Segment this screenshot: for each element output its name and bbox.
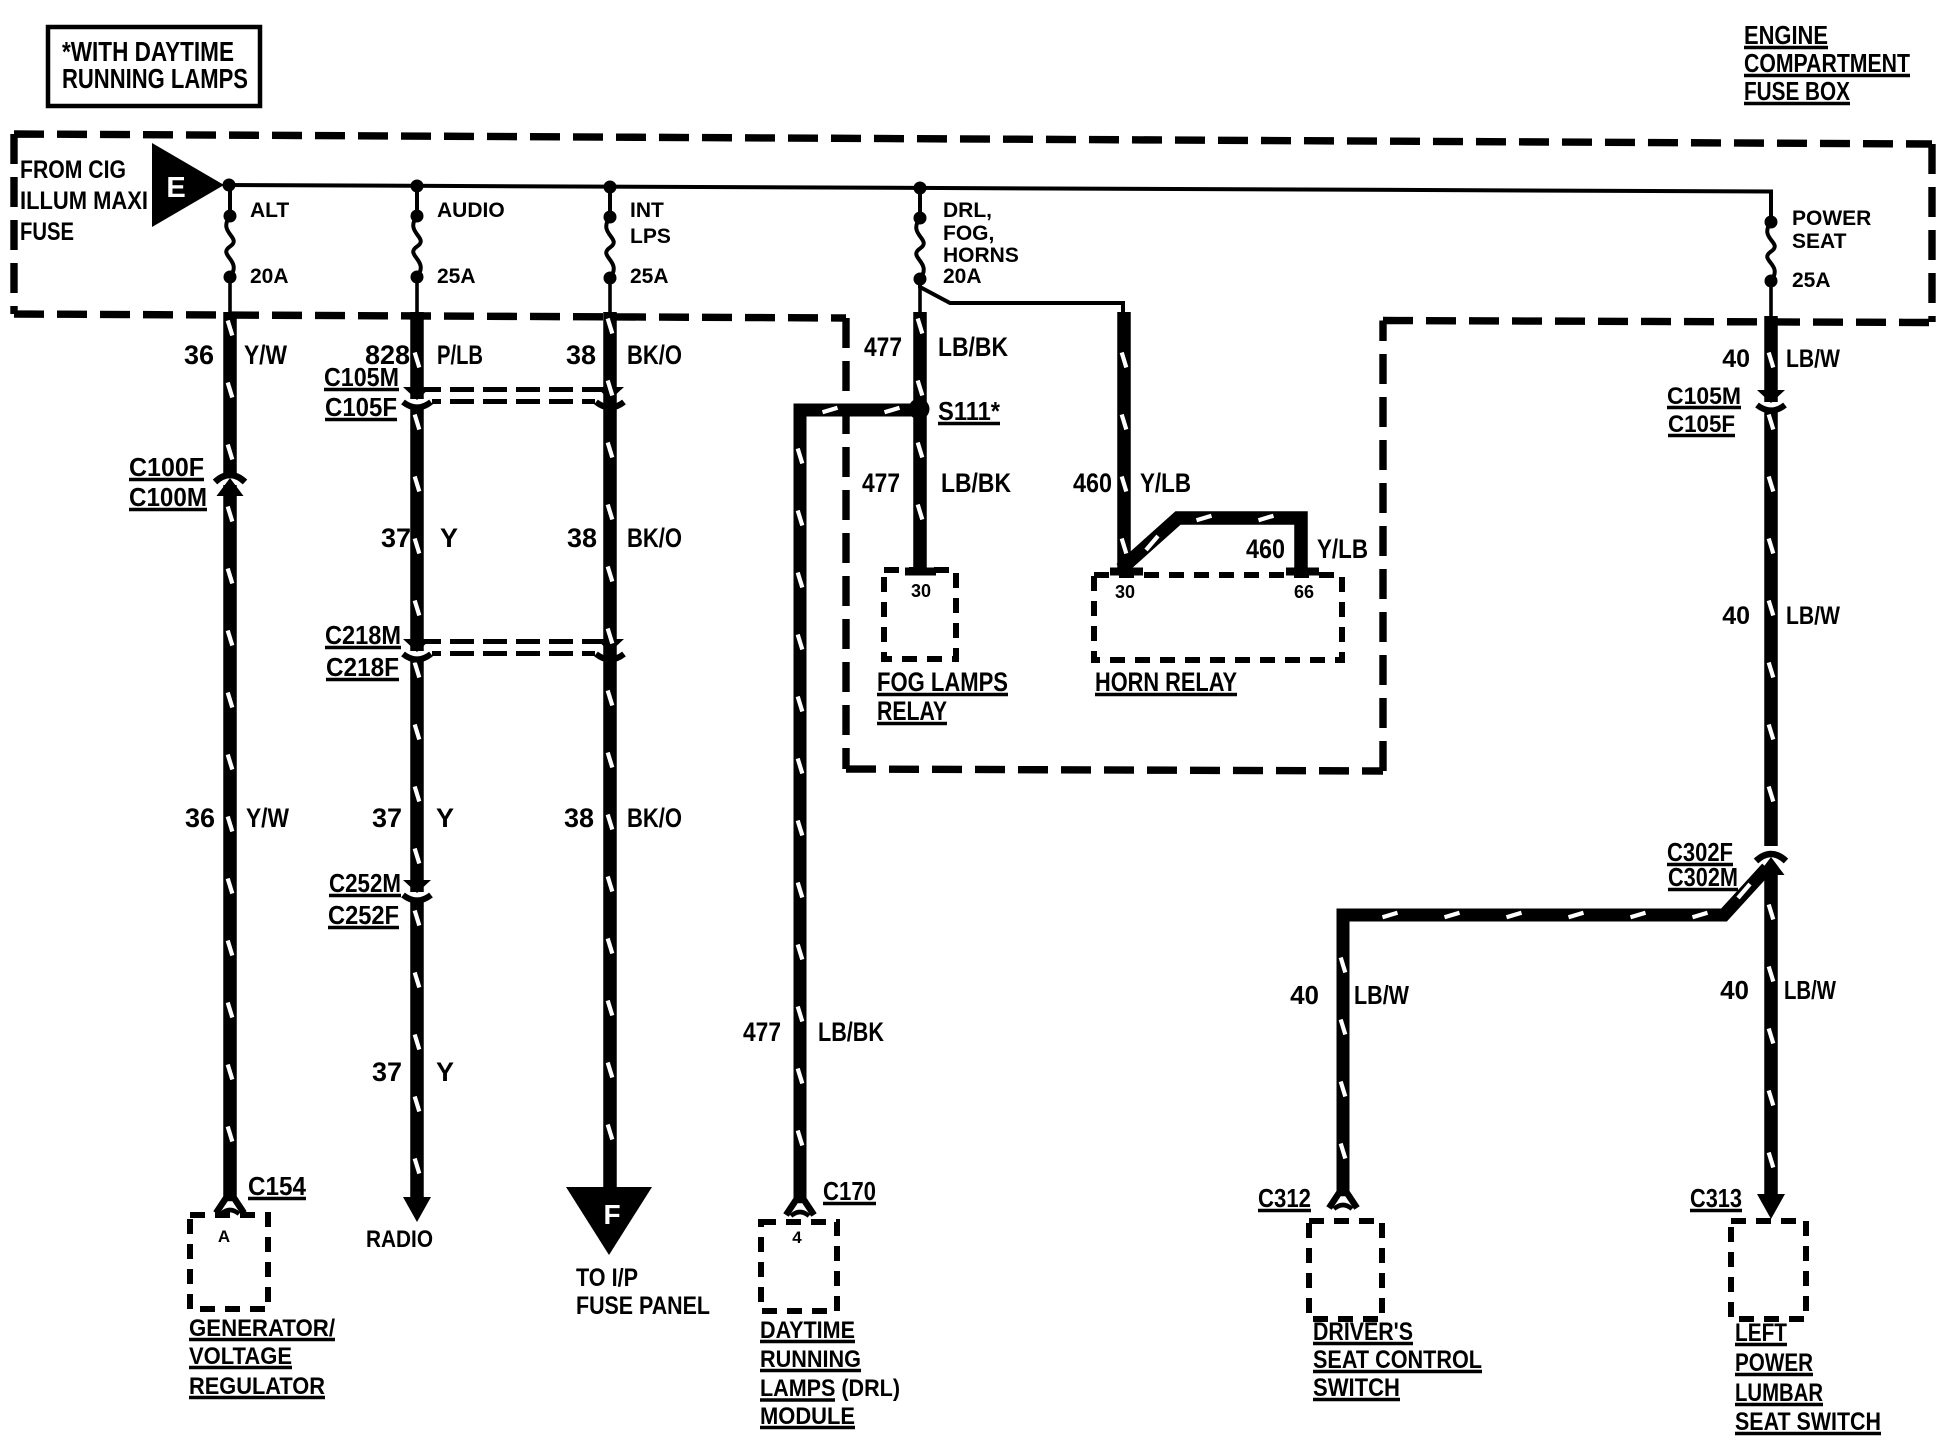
svg-text:RELAY: RELAY: [877, 696, 947, 726]
wire 40 LB/W (power seat fuse to C302): [1764, 316, 1778, 846]
svg-text:C100F: C100F: [129, 452, 204, 482]
wire 477 LB/BK (DRL fuse to fog lamps relay): [913, 312, 927, 569]
svg-text:C252M: C252M: [329, 868, 401, 898]
svg-text:Y/W: Y/W: [244, 340, 287, 370]
svg-text:LB/BK: LB/BK: [941, 468, 1011, 498]
connector C312 (wire end): [1329, 1193, 1357, 1208]
svg-text:LB/W: LB/W: [1354, 980, 1409, 1010]
svg-text:SEAT: SEAT: [1792, 230, 1847, 253]
svg-text:460: 460: [1073, 468, 1112, 498]
connector C105M/C105F (left, on audio wire): [402, 399, 432, 408]
wire 38 BK/O (INT LPS fuse to I/P fuse panel): [603, 312, 617, 1188]
svg-text:C105M: C105M: [324, 362, 399, 392]
svg-text:C302M: C302M: [1668, 862, 1738, 892]
svg-text:RUNNING LAMPS: RUNNING LAMPS: [62, 63, 248, 94]
terminal bar at horn relay pin 30: [1110, 568, 1143, 576]
svg-text:36: 36: [185, 803, 215, 833]
arrow F to I/P fuse panel: [566, 1187, 652, 1255]
connector C218M/C218F (on int lps wire): [595, 651, 625, 660]
svg-text:38: 38: [567, 523, 597, 553]
node: bus junction at AUDIO fuse: [411, 180, 424, 193]
svg-text:Y/W: Y/W: [246, 803, 289, 833]
svg-text:COMPARTMENT: COMPARTMENT: [1744, 48, 1910, 78]
svg-text:HORN RELAY: HORN RELAY: [1095, 667, 1237, 697]
svg-text:S111*: S111*: [938, 396, 1001, 426]
bus wire from arrow E to power seat fuse: [224, 185, 1771, 222]
svg-text:4: 4: [792, 1228, 802, 1247]
wire 36 Y/W (ALT fuse to C154): [223, 312, 237, 1198]
connector C105M/C105F (left, on int lps wire): [595, 399, 625, 408]
wire 40 LB/W (C302 to C313): [1764, 872, 1778, 1198]
svg-text:POWER: POWER: [1792, 207, 1871, 230]
svg-text:E: E: [166, 172, 185, 204]
svg-text:TO I/P: TO I/P: [576, 1264, 638, 1292]
horn relay (dashed box, pins 30 and 66): [1094, 575, 1342, 660]
fog lamps relay (dashed box, pin 30): [884, 570, 956, 659]
svg-text:LB/BK: LB/BK: [818, 1017, 884, 1047]
svg-text:C218F: C218F: [326, 652, 399, 682]
wire 477 LB/BK branch (S111 to DRL module): [800, 410, 914, 1198]
fuse INT LPS 25A: [608, 187, 612, 218]
fuse AUDIO 25A: [415, 186, 419, 217]
svg-text:Y/LB: Y/LB: [1317, 534, 1368, 564]
fuse POWER SEAT 25A: [1765, 216, 1778, 229]
svg-text:Y: Y: [436, 803, 454, 833]
svg-text:40: 40: [1722, 602, 1750, 630]
svg-text:Y: Y: [440, 523, 458, 553]
svg-text:AUDIO: AUDIO: [437, 199, 505, 222]
svg-text:37: 37: [372, 803, 402, 833]
svg-text:HORNS: HORNS: [943, 244, 1019, 267]
node: bus junction at ALT fuse: [223, 179, 236, 192]
svg-text:ENGINE: ENGINE: [1744, 20, 1828, 50]
svg-text:FROM CIG: FROM CIG: [20, 156, 126, 184]
connector C154 (wire end): [216, 1198, 244, 1213]
svg-text:ILLUM MAXI: ILLUM MAXI: [20, 187, 148, 215]
svg-text:FUSE: FUSE: [20, 218, 74, 246]
svg-text:INT: INT: [630, 199, 664, 222]
node: bus junction at DRL fuse: [914, 182, 927, 195]
svg-text:C170: C170: [823, 1176, 876, 1206]
connector C302F/C302M: [1755, 855, 1787, 864]
svg-text:DRL,: DRL,: [943, 199, 992, 222]
connector C105M/C105F (right): [1756, 402, 1786, 411]
wire 40 LB/W branch (C302 to driver's seat control switch): [1343, 868, 1767, 1196]
svg-text:BK/O: BK/O: [627, 803, 682, 833]
svg-text:477: 477: [862, 468, 900, 498]
connector C218M/C218F (on audio wire): [402, 651, 432, 660]
svg-text:38: 38: [564, 803, 594, 833]
svg-text:460: 460: [1246, 534, 1285, 564]
svg-text:C313: C313: [1690, 1183, 1742, 1213]
splice S111: [909, 399, 930, 420]
component box: left power lumbar seat switch (C313): [1731, 1221, 1806, 1319]
svg-text:LB/W: LB/W: [1786, 345, 1840, 373]
svg-text:F: F: [603, 1199, 620, 1230]
engine compartment fuse box outline (dashed): [14, 134, 1932, 323]
svg-text:P/LB: P/LB: [437, 340, 483, 370]
svg-text:38: 38: [566, 340, 596, 370]
feeder wire from DRL fuse to 460 wire (thin): [920, 280, 1123, 320]
fuse ALT 20A: [228, 185, 232, 217]
connector C218M/C218F dashed mating lines: [417, 639, 610, 644]
svg-text:C218M: C218M: [325, 620, 401, 650]
svg-text:ALT: ALT: [250, 199, 289, 222]
svg-text:BK/O: BK/O: [627, 340, 682, 370]
svg-text:477: 477: [864, 332, 902, 362]
svg-text:BK/O: BK/O: [627, 523, 682, 553]
svg-text:FUSE PANEL: FUSE PANEL: [576, 1292, 710, 1320]
connector C252M/C252F: [402, 892, 432, 901]
svg-text:40: 40: [1290, 980, 1319, 1010]
svg-text:37: 37: [372, 1057, 402, 1087]
svg-text:LAMPS (DRL): LAMPS (DRL): [760, 1375, 900, 1402]
svg-text:Y: Y: [436, 1057, 454, 1087]
arrow to RADIO: [403, 1197, 431, 1222]
node: bus junction at INT LPS fuse: [604, 181, 617, 194]
terminal bar at horn relay pin 66: [1286, 568, 1319, 576]
svg-text:FUSE BOX: FUSE BOX: [1744, 76, 1851, 106]
component box: driver's seat control switch (C312): [1309, 1221, 1382, 1319]
wire 460 Y/LB (to horn relay pin 30): [1117, 312, 1131, 569]
svg-text:LB/BK: LB/BK: [938, 332, 1008, 362]
svg-text:Y/LB: Y/LB: [1140, 468, 1191, 498]
svg-text:25A: 25A: [437, 265, 476, 288]
fuse DRL FOG HORNS 20A: [918, 188, 922, 219]
svg-text:40: 40: [1722, 345, 1750, 373]
relay bay outline (dashed bump-out of fuse box): [846, 318, 1383, 771]
connector C170 (wire end): [786, 1200, 814, 1215]
svg-text:FOG,: FOG,: [943, 222, 994, 245]
svg-text:A: A: [218, 1227, 230, 1246]
svg-text:C312: C312: [1258, 1183, 1311, 1213]
svg-text:30: 30: [911, 581, 931, 601]
svg-text:LB/W: LB/W: [1786, 602, 1840, 630]
svg-text:LPS: LPS: [630, 225, 671, 248]
connector C105M/C105F (left) dashed mating lines: [417, 387, 610, 392]
svg-text:30: 30: [1115, 582, 1135, 602]
svg-text:LB/W: LB/W: [1784, 975, 1836, 1005]
connector C100F/C100M: [214, 476, 246, 485]
note box: WITH DAYTIME RUNNING LAMPS: [48, 27, 260, 106]
wire 828 P/LB / 37 Y (AUDIO fuse to radio): [410, 312, 424, 1199]
svg-text:36: 36: [184, 340, 214, 370]
arrow E (from cig illum maxi fuse): [152, 143, 224, 227]
svg-text:66: 66: [1294, 582, 1314, 602]
component box: generator/voltage regulator (C154): [190, 1215, 268, 1309]
svg-text:477: 477: [743, 1017, 781, 1047]
svg-text:20A: 20A: [943, 265, 982, 288]
wire 460 Y/LB jumper (horn relay pin 30 to pin 66): [1121, 518, 1301, 569]
terminal bar at fog lamps relay pin 30: [905, 568, 936, 576]
svg-text:C252F: C252F: [328, 900, 399, 930]
svg-text:C100M: C100M: [129, 482, 207, 512]
svg-text:RADIO: RADIO: [366, 1226, 433, 1253]
svg-text:FOG LAMPS: FOG LAMPS: [877, 667, 1008, 697]
svg-text:C105F: C105F: [325, 392, 397, 422]
component box: daytime running lamps module (C170): [761, 1222, 837, 1311]
svg-text:37: 37: [381, 523, 411, 553]
svg-text:20A: 20A: [250, 265, 289, 288]
svg-text:25A: 25A: [1792, 269, 1831, 292]
svg-text:40: 40: [1720, 975, 1749, 1005]
connector C313 (arrow wire end): [1757, 1194, 1785, 1219]
svg-text:C154: C154: [248, 1171, 307, 1201]
svg-text:25A: 25A: [630, 265, 669, 288]
